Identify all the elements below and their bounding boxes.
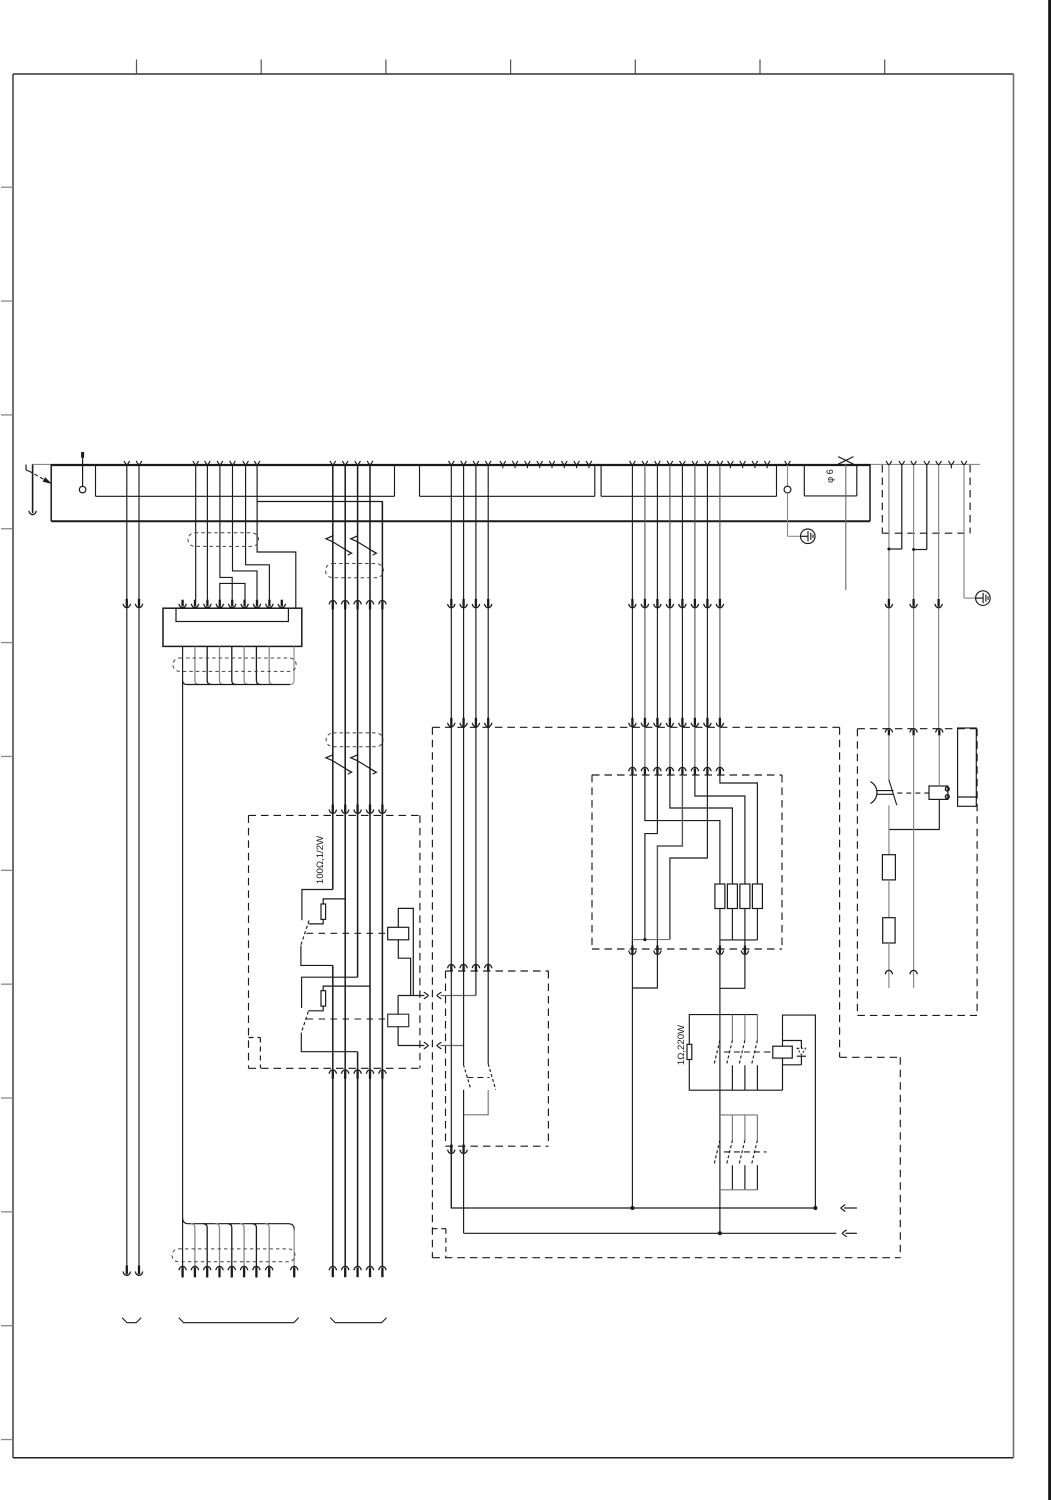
wire S2 full: [344, 465, 346, 1267]
fuse bottom leads: [719, 909, 721, 940]
arrows on 4-group above box B: [448, 964, 455, 968]
contact K2b blade on wire M4: [488, 1064, 496, 1090]
diode VD1 bottom lead loop: [783, 1058, 802, 1065]
wire M1: [450, 465, 452, 1208]
arrows entering box M: [885, 729, 892, 733]
dashed box K right edge lower: [899, 1057, 901, 1257]
contactor bank 1 mech link dashes: [724, 1051, 767, 1053]
resistor R3 body: [687, 1044, 692, 1059]
secondary left wire (long return): [182, 647, 184, 1222]
resistor R1 body: [321, 904, 326, 919]
diode VD1 top lead: [783, 1041, 802, 1049]
cable marker oval CM4: [172, 1249, 295, 1262]
arrows exiting box B: [448, 1150, 455, 1154]
mech link dashes bank1 to coil: [767, 1051, 773, 1053]
actuator A1 upper loop: [398, 908, 413, 995]
transformer TR1 inner winding window: [176, 608, 288, 621]
wire drop DR2 exits box J merges DR1: [720, 940, 745, 988]
paper right edge line: [1048, 0, 1051, 1500]
actuator A1 box: [388, 927, 409, 940]
dashed box B outline: [446, 970, 549, 972]
contactor bank 1 blades: [714, 1040, 720, 1065]
dashed box J outline: [592, 774, 782, 776]
disconnect switch Q2b: [351, 755, 358, 761]
dashed terminal box C bottom edge: [882, 532, 970, 534]
svg-text:100Ω,1/2W: 100Ω,1/2W: [315, 835, 326, 884]
actuator A1 lower link: [398, 940, 410, 996]
arrows on L1 L2 upper: [123, 604, 130, 608]
resistor R3 top loop: [689, 1015, 757, 1045]
wire N1 (gray) from bus: [888, 465, 890, 728]
relay coil K3 body: [773, 1046, 793, 1058]
feeder drop wire with arrow: [32, 464, 34, 513]
bus arrows right section: [886, 461, 892, 465]
wire M2: [463, 465, 465, 1065]
diode VD1 symbol: [797, 1048, 805, 1055]
dashed box K left edge: [431, 727, 433, 1257]
incoming feeder diagonal with arrow: [29, 471, 48, 482]
brace under left pair: [122, 1318, 141, 1323]
fuse FU2 body: [727, 884, 737, 909]
secondary collector bar: [187, 684, 290, 686]
top ruler ticks: [136, 60, 138, 74]
dashed terminal box C right edge: [969, 465, 971, 533]
cable marker oval CM2: [325, 564, 383, 578]
distribution wires D1-D8 from bus: [631, 465, 633, 775]
wire 183 lower tail: [182, 1221, 184, 1278]
contactor bank 2 blades: [714, 1140, 720, 1165]
contactor bank 1 vertical leads upper: [731, 1015, 733, 1041]
fuse FU6 body: [883, 918, 895, 943]
long wire W-B lower: [464, 1232, 837, 1234]
fuse FU1 body: [715, 884, 725, 909]
wire N5 (gray) from bus: [938, 465, 940, 728]
dashed box K right edge upper: [839, 727, 841, 1057]
long wire W-A to relay section: [451, 1154, 815, 1208]
wire S1 jog into contact K1a: [302, 890, 333, 921]
coil bottom wire to bank bar: [782, 1065, 784, 1090]
relay coil K3 feed loop: [783, 1015, 816, 1208]
contactor bank 2 mech link dashes: [724, 1151, 767, 1153]
arrows exiting box J: [629, 951, 636, 955]
flow arrow into W-A: [841, 1205, 845, 1212]
mech link dashes horn to coil K4: [897, 792, 929, 794]
cable marker oval CM0: [188, 533, 259, 547]
relay coil K4 body: [929, 786, 948, 799]
branch wire to column 383: [257, 502, 382, 522]
feed wire F2: [206, 465, 208, 601]
wire M2 lower: [463, 1090, 465, 1234]
comb drop wires: [191, 1224, 195, 1278]
wire N5 coil K4 to junction: [889, 799, 939, 829]
wire N5 into coil K4: [938, 735, 940, 786]
wire D6 jog to fuse FU3: [695, 775, 745, 884]
comb terminal arrows: [179, 1266, 186, 1270]
disconnect switch Q1a: [326, 536, 333, 542]
terminal enclosure block right: [958, 728, 977, 806]
horn switch blade: [889, 780, 897, 806]
wire S4 full: [369, 465, 371, 1267]
control line CL2 with continuation arrows: [398, 1045, 424, 1047]
fuse FU4 body: [752, 884, 762, 909]
resistor R1 top lead to wire S2: [323, 899, 345, 904]
wire M4 merge into M2: [464, 1090, 489, 1115]
resistor R3 bottom loop: [689, 1060, 782, 1091]
feed wire F4 with jog: [233, 465, 258, 601]
wire M3 upper: [475, 465, 477, 996]
collector bar left group: [632, 939, 670, 941]
resistor R2 bottom lead to blade: [308, 1006, 323, 1011]
terminal block R3: [600, 465, 602, 496]
wire N1 below fuses with up arrow: [888, 943, 890, 988]
arrows on 5-group bottom terminals: [329, 1266, 336, 1270]
arrows on wires N1 N3 N5: [885, 604, 892, 608]
wire S3 lower: [357, 1052, 359, 1267]
wire D2 jog to fuse FU1: [645, 775, 720, 884]
wire L1 from bus to bottom terminal: [126, 465, 128, 1274]
return wire corner into comb bar: [183, 1218, 295, 1231]
transformer TR1 body: [163, 608, 302, 646]
contact K1a output jog to wire S1: [301, 946, 333, 966]
arrows on 5-group exiting box L: [329, 1070, 336, 1074]
comb right tail: [293, 1266, 295, 1278]
resistor R2 body: [321, 991, 326, 1006]
feed wire F3 with jog: [220, 465, 232, 601]
contactor bank 2 top bar: [720, 1114, 758, 1116]
arrows on D1-D8 at box J top: [629, 767, 636, 771]
contact K1b output jog to wire S3: [301, 1033, 357, 1052]
wire drop DL2 exits box J merges DL1: [632, 940, 657, 988]
wire from X symbol down: [845, 464, 847, 590]
wire N1 lower segment: [888, 805, 890, 854]
svg-text:1Ω,220W: 1Ω,220W: [676, 1024, 687, 1065]
actuator A2 lower wire to control line: [397, 1027, 399, 1046]
control line CL1 with continuation arrows: [398, 995, 424, 997]
mechanical link dashes K1b to actuator A2: [307, 1018, 388, 1020]
brace under comb group: [179, 1318, 299, 1323]
resistor R2 top lead to wire S4: [323, 986, 370, 991]
feed wire F5 with jog: [246, 465, 270, 601]
actuator A2 upper wire to control line: [397, 996, 399, 1015]
feed wire F1: [195, 465, 197, 601]
drawing frame border: [13, 73, 1014, 75]
wire N4 jog joins N3: [926, 465, 928, 550]
dashed terminal box C left edge: [881, 465, 883, 533]
wire N3 inside box M with up arrow: [913, 735, 915, 988]
arrows on 5-group at box L entry: [329, 810, 336, 814]
svg-text:φ 6: φ 6: [825, 469, 835, 483]
busbar top rail: [33, 463, 52, 465]
collector bar right group: [720, 939, 758, 941]
contactor bank 1 vertical leads lower: [731, 1065, 733, 1090]
wire S3 upper: [357, 465, 359, 977]
wire S5 upper (from branch): [381, 502, 383, 1267]
dashed box L outline: [249, 814, 420, 816]
arrows on 5-group (up): [329, 600, 336, 604]
relay coil K4 marks: [945, 787, 949, 791]
wire M4: [487, 465, 489, 1064]
wire N2 jog joins N1: [901, 465, 903, 549]
contact K1a blade: [301, 921, 309, 945]
fuse FU5 body: [882, 855, 895, 880]
wire D8 jog to fuse FU4: [720, 775, 758, 884]
incoming feeder hook at bus left end: [26, 465, 29, 471]
wire drop DL1 exits box J: [631, 940, 633, 1208]
arrows on L1 L2 bottom terminals: [123, 1272, 130, 1276]
crossed-wire X symbol on bus: [838, 457, 853, 465]
wire D7 jog left: [670, 775, 708, 940]
flow arrow into W-B: [842, 1230, 846, 1237]
mechanical link dashes K1a to actuator A1: [307, 932, 388, 934]
arrows on 4-group at box K top: [448, 723, 455, 727]
busbar outer box right edge: [869, 464, 871, 521]
busbar outer box bottom edge: [51, 520, 870, 522]
bus connection arrows: [124, 461, 130, 465]
earth ground symbol E1: [801, 529, 816, 544]
wire S1 lower: [332, 965, 334, 1266]
transformer secondary wires with cable oval: [195, 647, 199, 685]
cable marker oval CM3: [326, 733, 383, 747]
left ruler ticks: [1, 186, 13, 188]
earth ground symbol E2: [976, 591, 991, 606]
bus arrows for distribution group: [630, 461, 636, 465]
comb right wire down: [293, 1229, 295, 1266]
contactor bank 2 vertical leads upper: [731, 1115, 733, 1140]
disconnect switch Q2a: [326, 755, 333, 761]
crossover link bar: [220, 583, 245, 607]
terminal block with label phi-6: [803, 465, 805, 496]
wire S3 jog into contact K1b: [302, 977, 358, 1008]
wire D1 through box J: [631, 775, 633, 949]
terminal stub with circle terminal T1: [81, 452, 84, 458]
mechanical link dashes K2a-K2b: [467, 1077, 489, 1079]
contactor bank 2 bottom bar: [720, 1189, 758, 1191]
arrows on D1-D8 at box K top: [629, 723, 636, 727]
terminal circle T2 with earth: [785, 461, 791, 465]
fuse FU3 body: [740, 884, 750, 909]
wire N3 (gray) from bus: [913, 465, 915, 728]
wire N6 to earth: [963, 465, 965, 598]
dashed box K bottom edge: [432, 1257, 900, 1259]
busbar outer box left edge: [50, 464, 52, 521]
dashed box M outline: [857, 728, 977, 730]
wire drop DR1 exits box J: [719, 940, 721, 1233]
wire N1 between fuses: [888, 880, 890, 918]
secondary right wire from right section: [290, 647, 294, 685]
terminal block R1: [95, 465, 97, 496]
feed wire F6 jog to transformer right section: [257, 465, 296, 608]
bus spare-terminal arrows: [500, 461, 506, 465]
dashed box L corner partition: [249, 1037, 261, 1039]
arrows on 4-group upper: [448, 604, 455, 608]
horn symbol: [871, 782, 877, 804]
wire D5 jog left: [657, 775, 682, 940]
terminal block R2: [419, 465, 421, 496]
dashed box K right jog: [840, 1056, 901, 1058]
contactor bank 2 vertical leads lower: [731, 1165, 733, 1190]
contact K1b blade: [301, 1012, 308, 1033]
wire D4 jog to fuse FU2: [670, 775, 733, 884]
resistor R1 bottom lead to blade: [309, 919, 324, 924]
dashed box K corner partition: [432, 1228, 446, 1230]
wire L2 from bus to bottom terminal: [138, 465, 140, 1274]
spare stub wire: [950, 465, 952, 468]
dashed box K top edge: [432, 726, 839, 728]
cable marker oval CM1: [173, 658, 296, 671]
wire D3 jog left: [645, 775, 658, 940]
arrows on D1-D8 upper: [629, 604, 636, 608]
actuator A2 box: [388, 1014, 409, 1026]
wire S1 upper: [332, 465, 334, 890]
brace under 5-wire group: [330, 1318, 386, 1323]
disconnect switch Q1b: [351, 536, 358, 542]
transformer input arrows: [179, 604, 186, 608]
junction dots on W-A: [630, 1206, 634, 1210]
contact K2a blade on wire M2: [463, 1065, 470, 1090]
wire N1 inside box M upper: [888, 735, 890, 780]
